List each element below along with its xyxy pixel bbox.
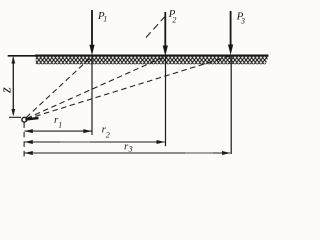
force P1 arrow (89, 10, 94, 55)
svg-text:z: z (0, 87, 15, 94)
force P2 arrow (163, 12, 168, 56)
svg-text:1: 1 (103, 15, 107, 24)
svg-text:3: 3 (240, 17, 245, 26)
z dim baseline tick (9, 116, 21, 118)
svg-text:3: 3 (128, 144, 133, 153)
svg-text:2: 2 (106, 130, 110, 139)
dashed ray to P1 (26, 56, 92, 117)
dashed ray to P2 (27, 56, 166, 118)
extension line below P2 (165, 56, 167, 146)
ground hatching (36, 57, 269, 65)
point M circle (22, 117, 27, 122)
svg-text:2: 2 (172, 16, 176, 25)
dashed ray to P3 (27, 56, 231, 119)
dashed leader line crossing P2 (146, 14, 167, 38)
dimension line r1 (24, 129, 92, 133)
ray convergence stroke at point (25, 118, 38, 120)
ground surface line (8, 55, 36, 57)
dimension line r3 (24, 151, 230, 155)
extension line below P3 (230, 56, 232, 154)
force P3 arrow (228, 11, 233, 55)
extension line below P1 (91, 56, 93, 135)
z dimension line (11, 56, 15, 116)
svg-text:1: 1 (58, 120, 62, 129)
dimension line r2 (24, 140, 165, 144)
extension line below point (23, 122, 25, 157)
